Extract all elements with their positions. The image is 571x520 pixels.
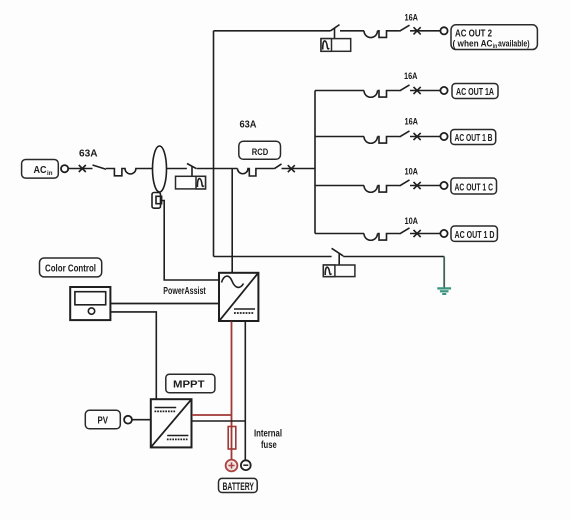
- svg-text:Internal: Internal: [254, 429, 282, 440]
- svg-text:AC OUT 1 B: AC OUT 1 B: [455, 133, 493, 144]
- svg-text:MPPT: MPPT: [173, 380, 205, 391]
- svg-text:Color Control: Color Control: [45, 263, 96, 274]
- svg-text:in: in: [493, 44, 498, 50]
- svg-text:AC: AC: [34, 165, 47, 176]
- svg-text:63A: 63A: [240, 120, 257, 131]
- svg-text:AC OUT 1A: AC OUT 1A: [456, 87, 494, 98]
- svg-text:63A: 63A: [79, 149, 98, 160]
- svg-text:AC OUT 1 C: AC OUT 1 C: [455, 182, 494, 193]
- svg-text:16A: 16A: [405, 116, 419, 127]
- svg-text:available): available): [498, 39, 530, 49]
- svg-text:RCD: RCD: [252, 147, 269, 158]
- svg-text:in: in: [47, 171, 53, 177]
- svg-text:fuse: fuse: [261, 440, 277, 451]
- svg-text:16A: 16A: [405, 13, 419, 24]
- svg-text:( when AC: ( when AC: [453, 39, 493, 49]
- svg-text:BATTERY: BATTERY: [223, 481, 255, 493]
- svg-text:10A: 10A: [405, 216, 419, 227]
- svg-text:AC OUT 1 D: AC OUT 1 D: [455, 230, 495, 241]
- svg-text:PV: PV: [98, 416, 109, 427]
- svg-text:PowerAssist: PowerAssist: [163, 286, 206, 297]
- svg-text:10A: 10A: [405, 167, 419, 178]
- svg-text:16A: 16A: [404, 71, 418, 82]
